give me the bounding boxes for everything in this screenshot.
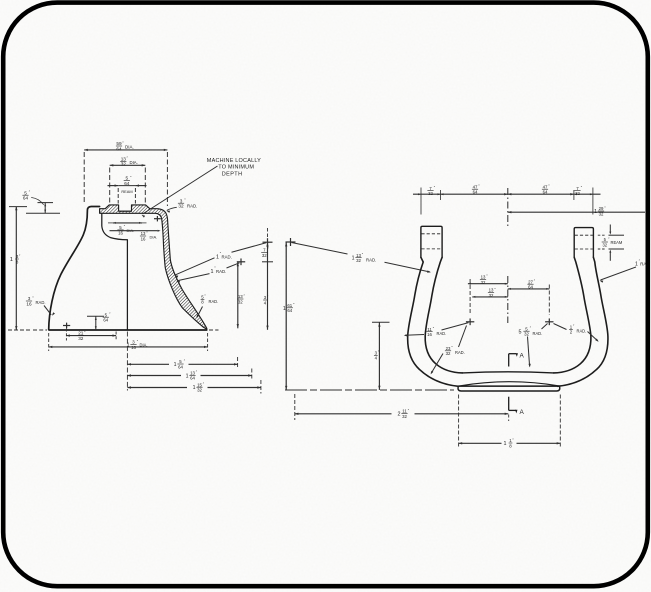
dim 21/32 ext <box>66 329 116 341</box>
tick B <box>286 238 296 246</box>
dim 5/64 REAM line <box>108 184 147 186</box>
svg-text:RAD.: RAD. <box>366 258 376 263</box>
yoke inner profile <box>425 257 591 373</box>
dim 5/32 ream <box>598 225 624 261</box>
leader 1 RAD second <box>176 263 239 283</box>
cross cap corner <box>154 216 161 221</box>
yoke right boss <box>574 228 593 258</box>
svg-text:A: A <box>520 353 525 360</box>
section marker upper <box>509 353 518 366</box>
ext above A <box>267 228 269 240</box>
svg-text:RAD.: RAD. <box>187 203 197 208</box>
svg-text:32: 32 <box>178 204 184 209</box>
svg-text:32: 32 <box>575 191 580 196</box>
svg-text:16: 16 <box>26 301 32 306</box>
svg-text:13: 13 <box>489 288 494 293</box>
label 5/32 REAM <box>602 237 623 248</box>
svg-text:DIA.: DIA. <box>130 160 138 165</box>
svg-text:27: 27 <box>528 279 533 284</box>
svg-text:1: 1 <box>352 256 355 262</box>
svg-text:REAM: REAM <box>121 189 132 194</box>
dim 1 3/8 ticks <box>8 207 30 330</box>
svg-text:1: 1 <box>193 385 196 391</box>
label 11/16 RAD <box>426 327 446 338</box>
dim 5/64 step ticks <box>26 203 60 214</box>
leader 11/16 RAD <box>404 323 469 337</box>
ext bell centerline <box>126 332 128 391</box>
svg-text:32: 32 <box>78 336 84 341</box>
label 5/8 RAD <box>201 294 219 305</box>
leader 23/32 RAD <box>431 326 467 375</box>
dim 21/32 line <box>66 334 116 336</box>
svg-text:MACHINE LOCALLY: MACHINE LOCALLY <box>207 158 261 164</box>
svg-text:32: 32 <box>602 242 607 247</box>
svg-text:DIA.: DIA. <box>140 342 148 347</box>
leader 5 5/32 RAD <box>528 324 548 368</box>
svg-text:RAD.: RAD. <box>577 329 587 334</box>
svg-text:REAM: REAM <box>611 240 623 245</box>
cross yoke right <box>545 318 553 325</box>
svg-text:5: 5 <box>24 190 27 195</box>
label 1 13/64 <box>186 370 198 381</box>
label A lower <box>520 409 525 416</box>
dim 1 29/32 line <box>508 211 645 213</box>
svg-text:64: 64 <box>473 190 478 195</box>
svg-text:8: 8 <box>16 259 19 264</box>
yoke base plate <box>458 382 560 391</box>
svg-text:32: 32 <box>356 258 361 263</box>
svg-text:5: 5 <box>519 329 522 335</box>
svg-text:RA: RA <box>640 262 646 267</box>
dim 5/64 bottom <box>87 316 104 329</box>
yoke right boss dashes <box>575 235 593 249</box>
svg-text:32: 32 <box>262 253 267 258</box>
svg-text:1: 1 <box>283 306 286 312</box>
label 13/32 row1 <box>480 274 488 285</box>
svg-text:61: 61 <box>287 303 292 308</box>
label 23/32 RAD <box>445 346 465 357</box>
label 47/64 left <box>472 184 480 195</box>
svg-text:47: 47 <box>473 184 478 189</box>
dim 13/32 DIA ext <box>110 168 146 204</box>
label 3/16 RAD <box>26 296 46 307</box>
label 7/32 right <box>574 186 582 197</box>
bell base ext right <box>209 329 219 331</box>
bell cap recess floor <box>119 210 132 212</box>
dim yoke top line <box>413 193 601 195</box>
note machine locally <box>207 158 261 178</box>
svg-text:29: 29 <box>599 206 604 211</box>
bell section outline <box>100 205 207 329</box>
svg-text:32: 32 <box>402 414 407 419</box>
label 1 RAD right <box>635 259 646 268</box>
label 2 11/32 <box>398 408 410 419</box>
svg-text:64: 64 <box>103 318 108 323</box>
svg-text:15: 15 <box>197 382 202 387</box>
svg-text:23: 23 <box>446 346 451 351</box>
svg-text:16: 16 <box>141 236 146 241</box>
svg-text:RAD.: RAD. <box>222 254 232 259</box>
svg-text:1: 1 <box>186 373 189 379</box>
svg-text:TO MINIMUM: TO MINIMUM <box>218 165 254 171</box>
label 13/32 row2 <box>488 287 496 298</box>
svg-text:64: 64 <box>23 196 29 201</box>
svg-text:64: 64 <box>124 181 130 186</box>
svg-text:64: 64 <box>116 146 122 151</box>
dim 1 5/64 line <box>127 363 237 365</box>
dim 1 3/16 ext <box>49 333 208 351</box>
label 27/64 <box>527 279 535 290</box>
dim 1 3/8 line <box>15 207 17 330</box>
bell outer profile <box>49 207 100 330</box>
svg-text:32: 32 <box>121 162 127 167</box>
label 5 5/32 RAD <box>519 326 543 337</box>
ext 237 <box>237 357 239 369</box>
ext yoke left center <box>469 279 471 315</box>
svg-text:13: 13 <box>190 370 195 375</box>
svg-text:2: 2 <box>398 412 401 418</box>
label 1 1/8 <box>504 438 515 449</box>
svg-text:RAD.: RAD. <box>36 300 46 305</box>
svg-text:32: 32 <box>238 299 243 304</box>
label 1 RAD first <box>216 252 232 261</box>
leader 1 RAD first <box>175 243 267 278</box>
label 47/64 right <box>542 184 550 195</box>
bell base line <box>49 329 208 331</box>
ext 2 11/32 left <box>294 394 296 420</box>
svg-text:1: 1 <box>635 262 638 268</box>
dim 7/32+3/4 vertical <box>262 242 273 330</box>
yoke baseline ext <box>285 389 454 391</box>
bell section hatch fill <box>100 205 207 329</box>
label 13/32 DIA <box>120 156 138 167</box>
dim 59/64 DIA ext <box>84 152 167 206</box>
svg-text:RAD.: RAD. <box>533 331 543 336</box>
label 1 13/32 RAD <box>352 253 377 264</box>
dim 5/64 REAM ext <box>118 188 135 204</box>
label 13/32 mid <box>237 294 245 305</box>
label 3/32 RAD <box>178 198 197 209</box>
label 3/4 mid <box>263 295 269 306</box>
svg-text:64: 64 <box>543 190 548 195</box>
label 5/64 REAM <box>121 175 132 193</box>
label 5/16 DIA <box>117 225 134 236</box>
label 1 15/32 <box>193 382 205 393</box>
dim 1 15/32 line <box>127 386 261 388</box>
leader 3/16 RAD <box>44 306 55 316</box>
svg-text:RAD.: RAD. <box>209 299 219 304</box>
tick A <box>263 238 273 246</box>
svg-text:1: 1 <box>216 254 219 260</box>
label 13/16 DIA <box>140 231 157 242</box>
svg-text:1: 1 <box>174 362 177 368</box>
svg-text:21: 21 <box>78 331 84 336</box>
ext 260 <box>260 380 262 394</box>
svg-text:RAD.: RAD. <box>437 331 447 336</box>
dim 13/32 DIA line <box>110 164 146 166</box>
cross yoke left <box>466 318 474 325</box>
svg-text:47: 47 <box>543 184 548 189</box>
svg-text:3: 3 <box>28 296 31 301</box>
label 1 61/64 <box>283 303 295 314</box>
svg-text:11: 11 <box>427 327 432 332</box>
svg-text:1: 1 <box>594 209 597 215</box>
bell shoulder fillet <box>102 213 128 239</box>
dim 27/64 <box>508 288 550 290</box>
leader 1/2 RAD <box>554 324 599 342</box>
yoke left boss dashes <box>421 234 441 249</box>
svg-text:11: 11 <box>402 409 407 414</box>
svg-text:32: 32 <box>428 191 433 196</box>
leader 5/64 step <box>32 198 44 205</box>
dim 5/16 DIA line <box>108 222 147 224</box>
svg-text:5: 5 <box>125 176 128 181</box>
svg-text:64: 64 <box>178 364 183 369</box>
svg-text:DEPTH: DEPTH <box>222 172 243 178</box>
leader 1 13/32 RAD <box>292 243 431 273</box>
svg-text:1: 1 <box>504 441 507 447</box>
svg-text:64: 64 <box>287 308 292 313</box>
label 1 3/8 <box>10 254 21 265</box>
label 1 5/64 <box>174 359 186 370</box>
dim 1 3/16 DIA line <box>49 346 208 348</box>
svg-text:32: 32 <box>481 280 486 285</box>
svg-text:1: 1 <box>211 269 214 275</box>
svg-text:13: 13 <box>238 294 243 299</box>
label 1 29/32 <box>594 206 606 217</box>
svg-text:DIA.: DIA. <box>150 235 158 240</box>
ext below A <box>508 415 510 422</box>
leader 1 RAD right <box>600 267 637 283</box>
svg-text:13: 13 <box>121 156 127 161</box>
label 3/4 yoke <box>374 350 380 361</box>
svg-text:13: 13 <box>481 275 486 280</box>
svg-text:32: 32 <box>489 293 494 298</box>
bell base ext left <box>33 329 47 331</box>
dim 13/32 row1 <box>468 283 508 285</box>
label 1 RAD second <box>211 266 227 275</box>
label 21/32 <box>78 330 86 341</box>
section marker lower <box>509 397 518 414</box>
yoke outer profile <box>408 257 608 386</box>
yoke inner bottom arc <box>463 372 554 373</box>
label 7/32 mid <box>261 247 269 258</box>
label 1/2 RAD <box>569 324 586 335</box>
tick C <box>237 258 245 265</box>
dim yoke top ticks <box>421 188 593 215</box>
dim 1 13/64 line <box>127 374 251 376</box>
ext 1 1/8 right <box>559 395 561 449</box>
dim 3/4 yoke <box>372 322 390 390</box>
ext 251 <box>251 369 253 381</box>
svg-text:32: 32 <box>599 211 604 216</box>
dim 13/32 row2 <box>472 296 508 298</box>
dim 2 11/32 <box>295 413 509 415</box>
svg-text:16: 16 <box>427 332 432 337</box>
bell center web line <box>126 240 128 330</box>
dim 13/32 vertical <box>237 262 239 329</box>
dim 5/64 step line <box>44 203 46 214</box>
svg-text:DIA.: DIA. <box>125 145 134 150</box>
svg-text:64: 64 <box>190 376 195 381</box>
dim 13/16 DIA line <box>110 230 161 232</box>
svg-text:32: 32 <box>197 388 202 393</box>
dim 59/64 DIA line <box>84 149 167 151</box>
leader 3/32 RAD <box>166 207 176 213</box>
svg-text:RAD.: RAD. <box>455 350 465 355</box>
svg-text:32: 32 <box>446 351 451 356</box>
yoke left boss <box>421 226 442 257</box>
label 7/32 left <box>427 186 435 197</box>
label 5/64 step <box>22 190 30 201</box>
svg-text:32: 32 <box>524 332 529 337</box>
svg-text:3: 3 <box>180 198 183 203</box>
svg-text:16: 16 <box>131 345 136 350</box>
label 59/64 DIA <box>116 141 134 152</box>
ext 1 1/8 left <box>458 395 460 449</box>
svg-text:1: 1 <box>10 257 13 263</box>
ext yoke right center <box>548 285 550 316</box>
svg-text:A: A <box>520 409 525 416</box>
label 1 3/16 DIA <box>127 339 148 350</box>
leader machine locally <box>142 166 218 218</box>
cross bell base <box>63 323 70 329</box>
svg-text:64: 64 <box>528 285 533 290</box>
leader 5/8 RAD <box>196 307 202 319</box>
label 5/64 bottom <box>103 312 111 323</box>
svg-text:59: 59 <box>116 141 122 146</box>
svg-text:13: 13 <box>356 253 361 258</box>
yoke centerline <box>507 188 509 323</box>
svg-text:13: 13 <box>141 231 146 236</box>
label A upper <box>520 353 525 360</box>
svg-text:RAD.: RAD. <box>216 269 226 274</box>
dim 1 61/64 vertical <box>285 242 287 390</box>
dim 1 1/8 <box>459 442 561 444</box>
